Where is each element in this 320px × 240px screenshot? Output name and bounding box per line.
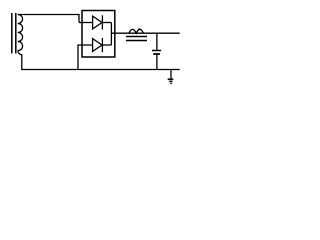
- diode D2: [93, 39, 102, 52]
- diode D1 cathode bar: [101, 15, 103, 29]
- diode D2 cathode wire: [102, 44, 111, 46]
- wire: winding bottom lead down to bottom rail: [18, 51, 22, 70]
- diode D1 cathode wire: [102, 22, 111, 24]
- ground stem: [170, 70, 172, 79]
- ground: [168, 79, 174, 83]
- capacitor C1 top plate: [152, 50, 161, 52]
- node: cathode bus joining D1 and D2: [110, 23, 112, 46]
- wire: bottom rail: [21, 69, 180, 71]
- transformer T1 core: [12, 13, 16, 54]
- wire: rectifier output to DC+ terminal: [111, 32, 179, 34]
- inductor L1 winding humps: [129, 29, 144, 33]
- transformer T1 winding: [18, 15, 23, 51]
- inductor L1 core: [126, 37, 147, 41]
- diode D1 anode wire: [79, 22, 93, 24]
- wire: winding top lead to rectifier input jog: [18, 15, 79, 23]
- rectifier module box: [82, 11, 115, 58]
- inductor L1 winding junction dot: [138, 28, 140, 30]
- wire: bottom rail up to D2 anode: [78, 45, 93, 70]
- capacitor C1 bottom lead: [156, 54, 158, 70]
- capacitor C1 top lead: [156, 33, 158, 50]
- diode D1: [93, 16, 102, 29]
- diode D2 cathode bar: [101, 38, 103, 52]
- capacitor C1 bottom plate: [153, 53, 160, 55]
